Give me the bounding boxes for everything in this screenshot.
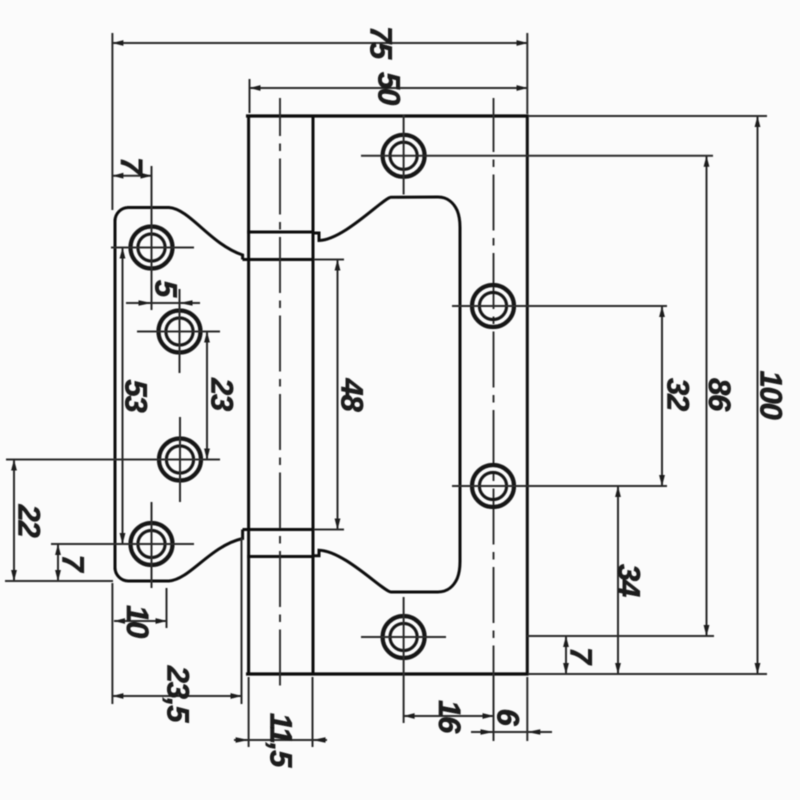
hole H4 crosshair: [361, 597, 446, 723]
svg-text:7: 7: [56, 554, 91, 573]
knuckle top segment lower line: [243, 258, 315, 261]
extension for 10 right end: [166, 588, 168, 628]
right leaf cutout recess outline: [313, 197, 460, 592]
right holes centerline bottom extension: [493, 674, 495, 741]
hole D outer: [131, 523, 173, 565]
knuckle bottom segment upper line: [243, 528, 315, 531]
knuckle right edge: [312, 115, 315, 676]
extension for 11,5 left: [248, 677, 250, 747]
dimension 11,5: [234, 713, 327, 768]
hole H3 outer: [472, 465, 514, 507]
svg-text:11,5: 11,5: [264, 713, 299, 768]
extension for 11,5 right: [312, 677, 314, 747]
dimension 5: [126, 280, 200, 306]
dimension 22: [12, 460, 47, 582]
svg-text:50: 50: [372, 72, 407, 105]
extension for 48 top: [314, 259, 344, 261]
knuckle top segment upper line: [247, 231, 314, 234]
svg-text:22: 22: [12, 503, 47, 537]
hole H1 crosshair: [361, 115, 713, 195]
extension line right edge above plate: [526, 33, 528, 114]
dimension 32: [661, 306, 696, 486]
dimension 10: [114, 605, 167, 638]
left leaf top edge with S-curve to knuckle: [115, 208, 243, 260]
extension line knuckle left above plate: [249, 79, 251, 113]
dimension 53: [119, 248, 154, 545]
extension right edge below plate: [526, 677, 528, 741]
dimension 50: [250, 72, 528, 105]
dimension 23,5: [112, 665, 241, 723]
svg-text:10: 10: [120, 605, 155, 638]
dimension 7 bottom-right: [564, 636, 599, 674]
right holes centerline: [493, 98, 495, 674]
extension for bottom edge left: [5, 580, 113, 582]
extension for 23,5 right end: [241, 538, 243, 704]
dimension 75: [112, 26, 527, 60]
extension top edge right: [528, 115, 767, 117]
dimension 34: [612, 486, 647, 674]
svg-text:7: 7: [564, 647, 599, 666]
extension for 48 bottom: [314, 529, 344, 531]
svg-text:16: 16: [432, 700, 467, 734]
left leaf left edge: [114, 219, 117, 570]
dimension 100: [754, 116, 789, 674]
dimension 7 bottom-left: [56, 544, 91, 581]
knuckle left edge: [247, 115, 250, 676]
hole C outer: [159, 439, 201, 481]
dimension 16: [404, 700, 494, 734]
knuckle bottom segment lower line: [247, 555, 314, 558]
dimension 86: [702, 156, 737, 636]
hole B outer: [159, 311, 201, 353]
extension bottom edge right: [528, 673, 767, 675]
svg-text:23,5: 23,5: [161, 665, 196, 723]
hole H1 top-right outer: [383, 135, 425, 177]
svg-text:34: 34: [612, 564, 647, 597]
dimension 23: [205, 332, 240, 460]
hinge pin centerline: [279, 98, 281, 693]
svg-text:7: 7: [114, 157, 149, 176]
svg-text:100: 100: [754, 370, 789, 419]
extension hole4 line right: [527, 635, 714, 637]
right leaf right edge: [526, 115, 529, 676]
right leaf top edge: [246, 114, 529, 117]
hole H2 crosshair: [452, 305, 667, 307]
svg-text:5: 5: [149, 280, 184, 298]
extension line left of leaf for 75/23,5 top: [111, 33, 113, 210]
hole H2 outer: [472, 285, 514, 327]
hole H3 crosshair: [452, 485, 667, 487]
svg-text:48: 48: [335, 377, 370, 412]
hole B crosshair: [137, 289, 220, 373]
dimension 7 top-left: [112, 157, 151, 176]
hole D crosshair: [51, 502, 194, 588]
svg-text:23: 23: [205, 377, 240, 411]
svg-text:6: 6: [491, 708, 526, 726]
svg-text:86: 86: [702, 378, 737, 412]
left leaf bottom edge with S-curve to knuckle: [115, 530, 243, 582]
dimension 6: [471, 708, 552, 734]
hole C crosshair: [6, 417, 220, 502]
right leaf bottom edge: [246, 672, 529, 675]
extension line left of leaf bottom: [111, 583, 113, 704]
svg-text:75: 75: [364, 26, 399, 60]
hole H4 bottom outer: [383, 616, 425, 658]
svg-text:53: 53: [119, 379, 154, 412]
hole A crosshair: [111, 166, 194, 310]
dimension 48: [335, 260, 370, 530]
hole A top-left outer: [131, 227, 173, 269]
svg-text:32: 32: [661, 378, 696, 411]
